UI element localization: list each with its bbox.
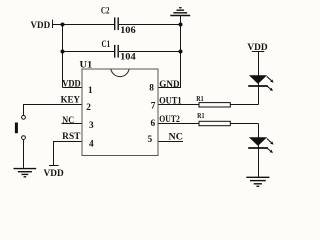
wire pin3 NC stub [62,123,83,125]
wire LED1 branch vertical [258,52,260,105]
wire C2 row right [119,24,181,26]
IC U1 notch [111,69,129,76]
IC U1 body [82,69,158,156]
wire OUT1 row right [230,104,258,106]
wire pin5 NC stub [159,141,184,143]
power port VDD right tick [252,51,264,53]
svg-text:VDD: VDD [62,79,81,89]
wire OUT1 row left [158,104,199,106]
wire OUT2 row left [158,123,199,125]
svg-text:2: 2 [86,103,91,113]
svg-text:KEY: KEY [61,95,81,105]
resistor R1 (lower, OUT2) [199,121,230,125]
wire left vertical VDD rail [62,25,64,88]
svg-text:5: 5 [148,135,153,145]
svg-text:NC: NC [169,133,183,143]
LED (upper, VDD to R1/OUT1) [248,75,273,91]
svg-text:OUT1: OUT1 [159,97,182,107]
svg-text:C2: C2 [101,7,110,17]
svg-text:8: 8 [149,84,154,94]
LED (lower, R1/OUT2 to ground) [248,137,273,153]
svg-text:OUT2: OUT2 [159,115,180,125]
svg-text:VDD: VDD [44,169,64,179]
push button (KEY to ground) [15,115,26,139]
wire C1 row right [119,51,181,53]
svg-text:6: 6 [151,119,156,129]
wire C2 row left [53,24,115,26]
wire LED2 branch vertical [258,124,260,178]
wire C1 row left [63,51,115,53]
wire right vertical to top ground [180,16,182,88]
wire KEY row [24,105,83,116]
svg-text:104: 104 [120,53,136,63]
svg-text:NC: NC [62,116,74,126]
svg-text:C1: C1 [102,40,111,50]
svg-text:1: 1 [88,86,93,96]
wire pin1 VDD stub [63,87,83,89]
ground (bottom left) [14,169,37,177]
svg-text:R1: R1 [197,111,204,120]
capacitor C1 plates [115,45,119,58]
ground (bottom right) [246,177,269,186]
junction node C2/left [61,23,65,27]
svg-text:RST: RST [62,132,81,142]
wire OUT2 row right [230,123,258,125]
svg-text:4: 4 [89,139,94,149]
svg-text:VDD: VDD [31,21,51,31]
resistor R1 (upper, OUT1) [199,103,230,107]
svg-text:VDD: VDD [247,43,267,53]
wire button bottom to ground [23,140,25,168]
svg-text:3: 3 [89,121,94,131]
svg-text:R1: R1 [196,94,203,103]
svg-text:7: 7 [151,101,156,111]
power port VDD top-left tick [52,20,54,28]
svg-text:106: 106 [120,26,136,36]
power port VDD bottom tick [49,165,59,167]
wire pin8 GND stub [158,87,181,89]
junction node C1/left [61,50,65,54]
svg-text:U1: U1 [80,61,93,71]
junction node C1/right [179,50,183,54]
wire RST row [54,142,83,166]
junction node C2/right [179,23,183,27]
ground (top right, flipped earth) [170,8,190,16]
svg-text:GND: GND [159,80,180,90]
capacitor C2 plates [115,17,119,30]
